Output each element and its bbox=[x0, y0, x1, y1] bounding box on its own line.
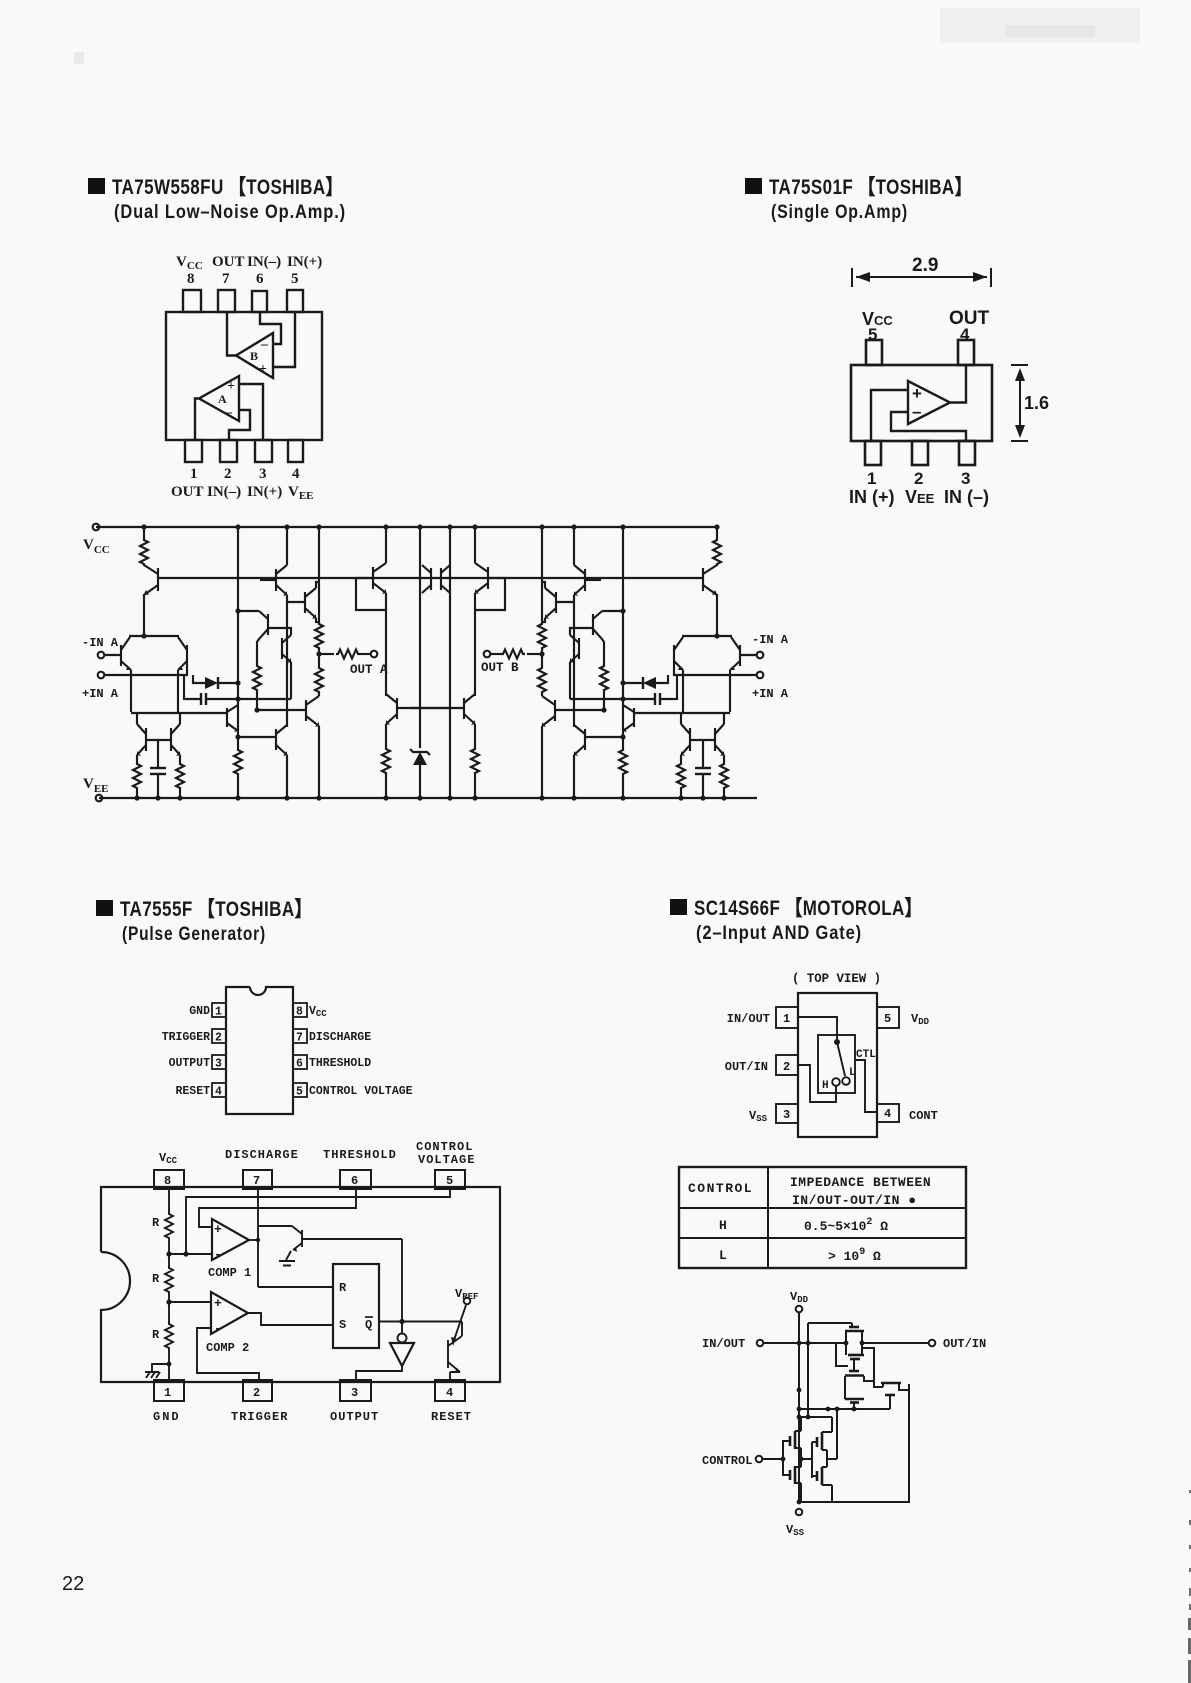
svg-text:R: R bbox=[152, 1328, 160, 1342]
header block TA7555F bbox=[96, 898, 312, 945]
wire opamp A minus to pin2 bbox=[229, 410, 250, 440]
junction dots bbox=[166, 1238, 404, 1324]
svg-text:–: – bbox=[912, 402, 921, 421]
dimension 1.6 bbox=[1011, 365, 1028, 441]
svg-text:CONTROL VOLTAGE: CONTROL VOLTAGE bbox=[309, 1085, 413, 1098]
svg-text:TA75S01F 【TOSHIBA】: TA75S01F 【TOSHIBA】 bbox=[769, 176, 972, 199]
wire VEE rail bbox=[99, 797, 757, 799]
wire gate bus bbox=[799, 1408, 890, 1410]
svg-text:+: + bbox=[214, 1222, 222, 1237]
wire +IN A terminal bbox=[98, 672, 105, 679]
inverter triangle bbox=[390, 1343, 414, 1366]
svg-text:4: 4 bbox=[960, 325, 970, 344]
wire gate feed bbox=[808, 1322, 852, 1324]
svg-text:H: H bbox=[719, 1218, 727, 1233]
resistor R5 bbox=[315, 666, 323, 694]
svg-text:( TOP VIEW ): ( TOP VIEW ) bbox=[792, 972, 881, 986]
wire CTL to pin4 bbox=[855, 1060, 877, 1112]
resistor R7 bbox=[382, 747, 390, 775]
svg-text:RESET: RESET bbox=[431, 1410, 472, 1424]
svg-text:CONTROL: CONTROL bbox=[702, 1454, 752, 1468]
package labels bbox=[725, 1012, 938, 1124]
pin 4 bbox=[288, 440, 303, 462]
wire bbox=[449, 527, 451, 798]
pin labels TA75W558FU bbox=[171, 254, 322, 502]
wire discharge base to inverter node bbox=[302, 1238, 402, 1240]
zener diode Z1 bbox=[413, 752, 427, 765]
svg-text:IN/OUT: IN/OUT bbox=[702, 1337, 745, 1351]
flip-flop box FF bbox=[333, 1264, 379, 1348]
svg-text:2: 2 bbox=[215, 1032, 222, 1045]
wire bbox=[397, 707, 450, 709]
svg-text:8: 8 bbox=[187, 271, 195, 287]
svg-text:+IN A: +IN A bbox=[752, 687, 789, 701]
svg-text:TA7555F 【TOSHIBA】: TA7555F 【TOSHIBA】 bbox=[120, 898, 312, 921]
pin 8 bbox=[183, 290, 201, 312]
schematic labels bbox=[82, 537, 789, 795]
svg-text:R: R bbox=[152, 1272, 160, 1286]
wire OUT A tap bbox=[319, 653, 334, 655]
svg-text:OUT/IN: OUT/IN bbox=[725, 1060, 768, 1074]
svg-text:7: 7 bbox=[253, 1174, 260, 1188]
svg-text:TRIGGER: TRIGGER bbox=[231, 1410, 288, 1424]
op-amp COMP2 bbox=[211, 1292, 248, 1334]
svg-text:5: 5 bbox=[884, 1012, 891, 1026]
pin 4 OUT bbox=[958, 340, 974, 365]
pin 3 bbox=[255, 440, 272, 462]
wire OUT/IN line bbox=[862, 1342, 929, 1344]
svg-text:Q: Q bbox=[365, 1318, 372, 1332]
wire pin7 to opamp B output bbox=[227, 312, 236, 356]
svg-text:B: B bbox=[250, 349, 258, 363]
resistor R1 bbox=[140, 538, 148, 566]
transistor Q2 input left bbox=[120, 645, 122, 666]
pin 6 box bbox=[293, 1055, 307, 1069]
svg-text:OUT: OUT bbox=[212, 254, 245, 270]
switch contact L bbox=[842, 1077, 850, 1085]
svg-text:-IN A: -IN A bbox=[752, 633, 789, 647]
svg-text:2: 2 bbox=[253, 1386, 260, 1400]
op-amp B bbox=[236, 333, 273, 378]
wire bbox=[136, 712, 138, 724]
wire Q-bar output bbox=[379, 1321, 462, 1323]
svg-text:3: 3 bbox=[215, 1058, 222, 1071]
pin 4 box bbox=[212, 1083, 226, 1097]
wire comp2 out to FF S bbox=[248, 1313, 333, 1325]
pin 6 box bbox=[340, 1170, 371, 1189]
wire VREF slant bbox=[453, 1305, 466, 1343]
op-amp A bbox=[199, 376, 239, 421]
wire tap1 to comp1 bbox=[169, 1253, 212, 1255]
svg-text:IN(+): IN(+) bbox=[247, 484, 282, 500]
wire gate rail B bbox=[811, 1442, 813, 1478]
svg-text:IN (–): IN (–) bbox=[944, 487, 989, 507]
node VREF terminal bbox=[464, 1298, 471, 1305]
svg-text:SC14S66F 【MOTOROLA】: SC14S66F 【MOTOROLA】 bbox=[694, 897, 922, 920]
wire output to pin4 bbox=[950, 365, 966, 403]
wire left verticals bbox=[807, 1323, 809, 1417]
svg-text:8: 8 bbox=[164, 1174, 171, 1188]
IC body U1 bbox=[166, 312, 322, 440]
table frame bbox=[679, 1167, 966, 1268]
wire bus OUT A column bbox=[318, 527, 320, 624]
svg-text:1.6: 1.6 bbox=[1024, 393, 1049, 413]
pin 3 box bbox=[776, 1104, 798, 1123]
labels TA75S01F bbox=[849, 255, 1049, 507]
wire minus input loop to pin3 bbox=[891, 412, 966, 441]
pin 5 box bbox=[293, 1083, 307, 1097]
svg-text:VOLTAGE: VOLTAGE bbox=[418, 1153, 475, 1167]
svg-text:> 109 Ω: > 109 Ω bbox=[828, 1247, 881, 1264]
node OUT/IN terminal bbox=[929, 1340, 936, 1347]
IC body U3 bbox=[226, 987, 293, 1114]
wire right loop bbox=[799, 1384, 909, 1502]
resistor R chain 3 bbox=[165, 1322, 173, 1350]
wire bbox=[136, 790, 138, 798]
svg-text:CONT: CONT bbox=[909, 1109, 938, 1123]
wire bus bbox=[385, 527, 387, 563]
svg-text:3: 3 bbox=[961, 469, 970, 488]
svg-text:4: 4 bbox=[446, 1386, 453, 1400]
pin 5 box bbox=[877, 1007, 899, 1028]
capacitor C2 bbox=[184, 675, 201, 699]
svg-text:OUT B: OUT B bbox=[481, 661, 519, 675]
wire diode connection bbox=[356, 578, 386, 610]
wire bias line bbox=[157, 577, 704, 579]
ground symbol bbox=[279, 1251, 295, 1266]
wire bbox=[385, 775, 387, 798]
svg-text:CTL: CTL bbox=[856, 1049, 876, 1061]
transistor Q3 input right bbox=[186, 645, 188, 666]
svg-text:22: 22 bbox=[62, 1573, 84, 1595]
wire vdd tie line bbox=[801, 1416, 832, 1418]
wire threshold path bbox=[199, 1189, 356, 1227]
inverter bubble bbox=[398, 1334, 407, 1343]
wire input pair tail bar bbox=[129, 635, 179, 637]
pin 2 bbox=[912, 441, 928, 465]
resistor R8 OUT A bbox=[336, 650, 360, 659]
junction dots centre bbox=[417, 524, 452, 800]
svg-text:3: 3 bbox=[783, 1108, 790, 1122]
wire comp1 out to FF R bbox=[249, 1239, 258, 1241]
svg-text:(Pulse Generator): (Pulse Generator) bbox=[122, 924, 266, 945]
svg-text:DISCHARGE: DISCHARGE bbox=[309, 1031, 371, 1044]
svg-text:(Single Op.Amp): (Single Op.Amp) bbox=[771, 202, 908, 223]
node VEE terminal bbox=[96, 795, 103, 802]
svg-text:(Dual Low–Noise Op.Amp.): (Dual Low–Noise Op.Amp.) bbox=[114, 202, 346, 223]
svg-text:COMP 2: COMP 2 bbox=[206, 1341, 249, 1355]
IC outline with side notch bbox=[101, 1187, 500, 1382]
wire centre bus bbox=[419, 527, 421, 748]
svg-text:IN(–): IN(–) bbox=[247, 254, 281, 270]
wire inverter A out bbox=[800, 1448, 802, 1467]
dimension 2.9 arrow bbox=[852, 268, 991, 287]
pin 8 box bbox=[154, 1170, 184, 1189]
svg-text:OUTPUT: OUTPUT bbox=[330, 1410, 379, 1424]
svg-text:-IN A: -IN A bbox=[82, 636, 119, 650]
transistor discharge Q bbox=[257, 1189, 259, 1287]
wire vertical bus bbox=[237, 527, 239, 748]
svg-text:L: L bbox=[719, 1248, 727, 1263]
svg-text:5: 5 bbox=[296, 1086, 303, 1099]
wire CONTROL bbox=[763, 1458, 783, 1460]
transistor Q15 centre right bbox=[440, 568, 442, 590]
svg-text:1: 1 bbox=[867, 469, 876, 488]
wire pin1 to switch bbox=[798, 1017, 837, 1039]
MOSFET M4 bbox=[845, 1398, 864, 1401]
MOSFET M5 bbox=[881, 1382, 901, 1385]
svg-text:H: H bbox=[822, 1080, 829, 1092]
switch contact H bbox=[832, 1078, 840, 1086]
wire pin6 to opamp B minus bbox=[260, 312, 281, 344]
svg-text:CONTROL: CONTROL bbox=[688, 1181, 753, 1196]
svg-text:+: + bbox=[227, 379, 235, 394]
svg-text:0.5~5×102 Ω: 0.5~5×102 Ω bbox=[804, 1217, 888, 1234]
svg-text:2.9: 2.9 bbox=[912, 255, 938, 276]
wire bbox=[238, 736, 276, 738]
MOSFET M9 bbox=[816, 1471, 819, 1481]
ground transistor mark bbox=[145, 1364, 169, 1378]
wire bbox=[318, 726, 320, 798]
pin 6 bbox=[252, 291, 267, 312]
wire plus input to pin1 bbox=[871, 390, 908, 441]
svg-text:6: 6 bbox=[351, 1174, 358, 1188]
junction dots bbox=[781, 1341, 865, 1505]
transistor Q10 bbox=[305, 700, 307, 721]
svg-text:DISCHARGE: DISCHARGE bbox=[225, 1148, 299, 1162]
pin 4 box bbox=[435, 1380, 465, 1401]
svg-text:THRESHOLD: THRESHOLD bbox=[323, 1148, 397, 1162]
pin 8 box bbox=[293, 1003, 307, 1017]
svg-text:2: 2 bbox=[224, 466, 232, 482]
diode D1 bbox=[193, 675, 205, 683]
wire tap2 to comp2 bbox=[169, 1301, 211, 1303]
svg-text:THRESHOLD: THRESHOLD bbox=[309, 1057, 371, 1070]
resistor R9 bbox=[234, 748, 242, 776]
svg-text:IN/OUT: IN/OUT bbox=[727, 1012, 770, 1026]
svg-text:4: 4 bbox=[292, 466, 300, 482]
svg-text:-: - bbox=[214, 1321, 222, 1336]
svg-text:TA75W558FU 【TOSHIBA】: TA75W558FU 【TOSHIBA】 bbox=[112, 176, 343, 199]
svg-text:A: A bbox=[218, 392, 227, 406]
pin 2 box bbox=[243, 1380, 272, 1401]
svg-text:–: – bbox=[224, 405, 233, 420]
wire bbox=[168, 1240, 170, 1268]
transistor Q13 bbox=[396, 698, 398, 719]
resistor R3 bbox=[176, 762, 184, 790]
svg-text:IN (+): IN (+) bbox=[849, 487, 895, 507]
svg-text:8: 8 bbox=[296, 1006, 303, 1019]
node VSS terminal bbox=[796, 1509, 803, 1516]
pin 3 box bbox=[340, 1380, 371, 1401]
op-amp COMP1 bbox=[212, 1219, 249, 1260]
svg-text:R: R bbox=[339, 1281, 347, 1295]
transistor Q9 bbox=[304, 592, 306, 613]
svg-text:1: 1 bbox=[190, 466, 198, 482]
transistor output Q reset bbox=[461, 1322, 463, 1337]
pin 1 bbox=[185, 440, 202, 462]
svg-text:+: + bbox=[259, 362, 267, 377]
svg-text:IMPEDANCE BETWEEN: IMPEDANCE BETWEEN bbox=[790, 1175, 931, 1190]
pin 2 box bbox=[212, 1029, 226, 1043]
transistor Q6 bbox=[267, 614, 269, 635]
wire bbox=[168, 1350, 170, 1380]
DIP pin labels bbox=[162, 1005, 413, 1099]
svg-text:+: + bbox=[912, 384, 922, 403]
wire bbox=[318, 694, 320, 696]
pin 4 box bbox=[877, 1104, 899, 1122]
wire long node segment B bbox=[256, 709, 306, 711]
svg-text:2: 2 bbox=[783, 1060, 790, 1074]
pin 5 Vcc bbox=[866, 340, 882, 365]
svg-text:OUT A: OUT A bbox=[350, 663, 388, 677]
svg-text:(2–Input AND Gate): (2–Input AND Gate) bbox=[696, 923, 862, 944]
pin 7 box bbox=[243, 1170, 272, 1189]
svg-text:6: 6 bbox=[296, 1058, 303, 1071]
svg-text:5: 5 bbox=[446, 1174, 453, 1188]
IC body U2 bbox=[851, 365, 992, 441]
wire bbox=[256, 692, 258, 710]
wire bottom link bbox=[799, 1501, 832, 1503]
header block TA75W558FU bbox=[88, 176, 346, 223]
wire Vcc chain bbox=[168, 1189, 170, 1214]
pin 2 bbox=[220, 440, 237, 462]
header block TA75S01F bbox=[745, 176, 972, 223]
wire mirror base link bbox=[146, 739, 171, 741]
wire Q2 collector down bbox=[130, 670, 132, 712]
pin 5 bbox=[287, 290, 303, 312]
svg-text:IN(+): IN(+) bbox=[287, 254, 322, 270]
MOSFET M2 bbox=[848, 1354, 864, 1357]
wire parallel loop bbox=[862, 1348, 883, 1387]
pin 1 bbox=[865, 441, 881, 465]
svg-text:RESET: RESET bbox=[175, 1085, 210, 1098]
wire bbox=[179, 790, 181, 798]
wire Q3 collector down bbox=[177, 670, 179, 712]
svg-text:COMP 1: COMP 1 bbox=[208, 1266, 251, 1280]
svg-text:+: + bbox=[214, 1296, 222, 1311]
wire bbox=[316, 582, 319, 588]
transistor Q8 bbox=[275, 569, 277, 591]
wire IN/OUT line bbox=[764, 1342, 846, 1344]
faint scan smudges bbox=[940, 8, 1140, 42]
pin 2 box bbox=[776, 1055, 798, 1075]
svg-text:5: 5 bbox=[291, 271, 299, 287]
svg-text:4: 4 bbox=[884, 1107, 891, 1121]
resistor R6 bbox=[253, 664, 261, 692]
MOSFET M3 bbox=[849, 1370, 859, 1373]
node IN/OUT terminal bbox=[757, 1340, 764, 1347]
node VDD terminal bbox=[796, 1306, 803, 1313]
wire -IN A terminal bbox=[98, 652, 105, 659]
svg-text:2: 2 bbox=[914, 469, 923, 488]
inner switch box bbox=[818, 1035, 855, 1093]
wire VDD vertical bbox=[798, 1313, 800, 1502]
pin 1 box bbox=[154, 1380, 184, 1401]
wire long node segment A bbox=[131, 712, 227, 714]
svg-text:-: - bbox=[214, 1247, 222, 1262]
svg-text:GND: GND bbox=[189, 1005, 210, 1018]
svg-text:3: 3 bbox=[259, 466, 267, 482]
svg-text:7: 7 bbox=[296, 1032, 303, 1045]
svg-text:+IN A: +IN A bbox=[82, 687, 119, 701]
node VCC terminal bbox=[93, 524, 100, 531]
wire bbox=[238, 610, 259, 612]
transistor Q7 bbox=[281, 638, 283, 659]
wire inverter B out bbox=[826, 1450, 828, 1467]
wire bbox=[318, 650, 320, 666]
junction dots bbox=[134, 524, 388, 800]
wire VCC rail bbox=[96, 526, 718, 528]
svg-text:IN(–): IN(–) bbox=[207, 484, 241, 500]
wire to pin4 bbox=[450, 1372, 460, 1380]
svg-text:IN/OUT-OUT/IN ●: IN/OUT-OUT/IN ● bbox=[792, 1193, 917, 1208]
wire rail stub to R1 bbox=[143, 527, 145, 538]
pin 3 box bbox=[212, 1055, 226, 1069]
transistor Q14 centre left bbox=[430, 568, 432, 590]
svg-text:OUT: OUT bbox=[171, 484, 204, 500]
svg-text:GND: GND bbox=[153, 1410, 181, 1424]
svg-text:6: 6 bbox=[256, 271, 264, 287]
svg-text:–: – bbox=[260, 337, 269, 352]
node CONTROL terminal bbox=[756, 1456, 763, 1463]
pin 5 box bbox=[435, 1170, 465, 1189]
MOSFET M7 bbox=[789, 1470, 792, 1480]
pin 1 box bbox=[776, 1007, 798, 1028]
wire inverter to pin3 bbox=[356, 1366, 402, 1380]
svg-text:7: 7 bbox=[222, 271, 230, 287]
transistor Q1 bbox=[157, 568, 159, 591]
svg-text:S: S bbox=[339, 1318, 346, 1332]
svg-text:1: 1 bbox=[783, 1012, 790, 1026]
resistor R chain 2 bbox=[165, 1266, 173, 1294]
svg-text:4: 4 bbox=[215, 1086, 222, 1099]
wire to OUT A terminal bbox=[360, 653, 370, 655]
wire bbox=[260, 579, 276, 581]
wire inverter A to B bbox=[801, 1458, 812, 1460]
functional diagram labels bbox=[152, 1140, 478, 1424]
wire pin2 path bbox=[798, 1065, 836, 1102]
transistor Q4 mirror left bbox=[145, 728, 147, 751]
transistor Q12 bbox=[372, 567, 374, 589]
transistor Q11 bbox=[275, 729, 277, 750]
op-amp U2 triangle bbox=[908, 381, 950, 424]
header block SC14S66F bbox=[670, 897, 922, 944]
wire bbox=[268, 628, 291, 635]
svg-text:OUT/IN: OUT/IN bbox=[943, 1337, 986, 1351]
CMOS labels bbox=[702, 1290, 986, 1538]
switch pole dot bbox=[834, 1039, 840, 1045]
svg-text:CONTROL: CONTROL bbox=[416, 1140, 473, 1154]
switch blade bbox=[837, 1042, 845, 1076]
pin 1 box bbox=[212, 1003, 226, 1017]
transistor Q5 mirror right bbox=[170, 728, 172, 751]
Q-bar overline bbox=[365, 1316, 373, 1318]
wire opamp A output to pin1 bbox=[195, 399, 199, 441]
MOSFET M1 bbox=[849, 1326, 859, 1329]
wire gate rail A bbox=[782, 1440, 784, 1476]
wire trigger path bbox=[197, 1328, 259, 1380]
wire opamp A plus to pin3 bbox=[239, 384, 263, 440]
wire control voltage path bbox=[186, 1189, 450, 1254]
pin 7 bbox=[218, 290, 235, 312]
MOSFET M8 bbox=[816, 1437, 819, 1447]
svg-text:3: 3 bbox=[351, 1386, 358, 1400]
transistor Q6b bbox=[226, 708, 228, 727]
svg-text:5: 5 bbox=[868, 325, 877, 344]
resistor R chain 1 bbox=[165, 1212, 173, 1240]
pin 7 box bbox=[293, 1029, 307, 1043]
